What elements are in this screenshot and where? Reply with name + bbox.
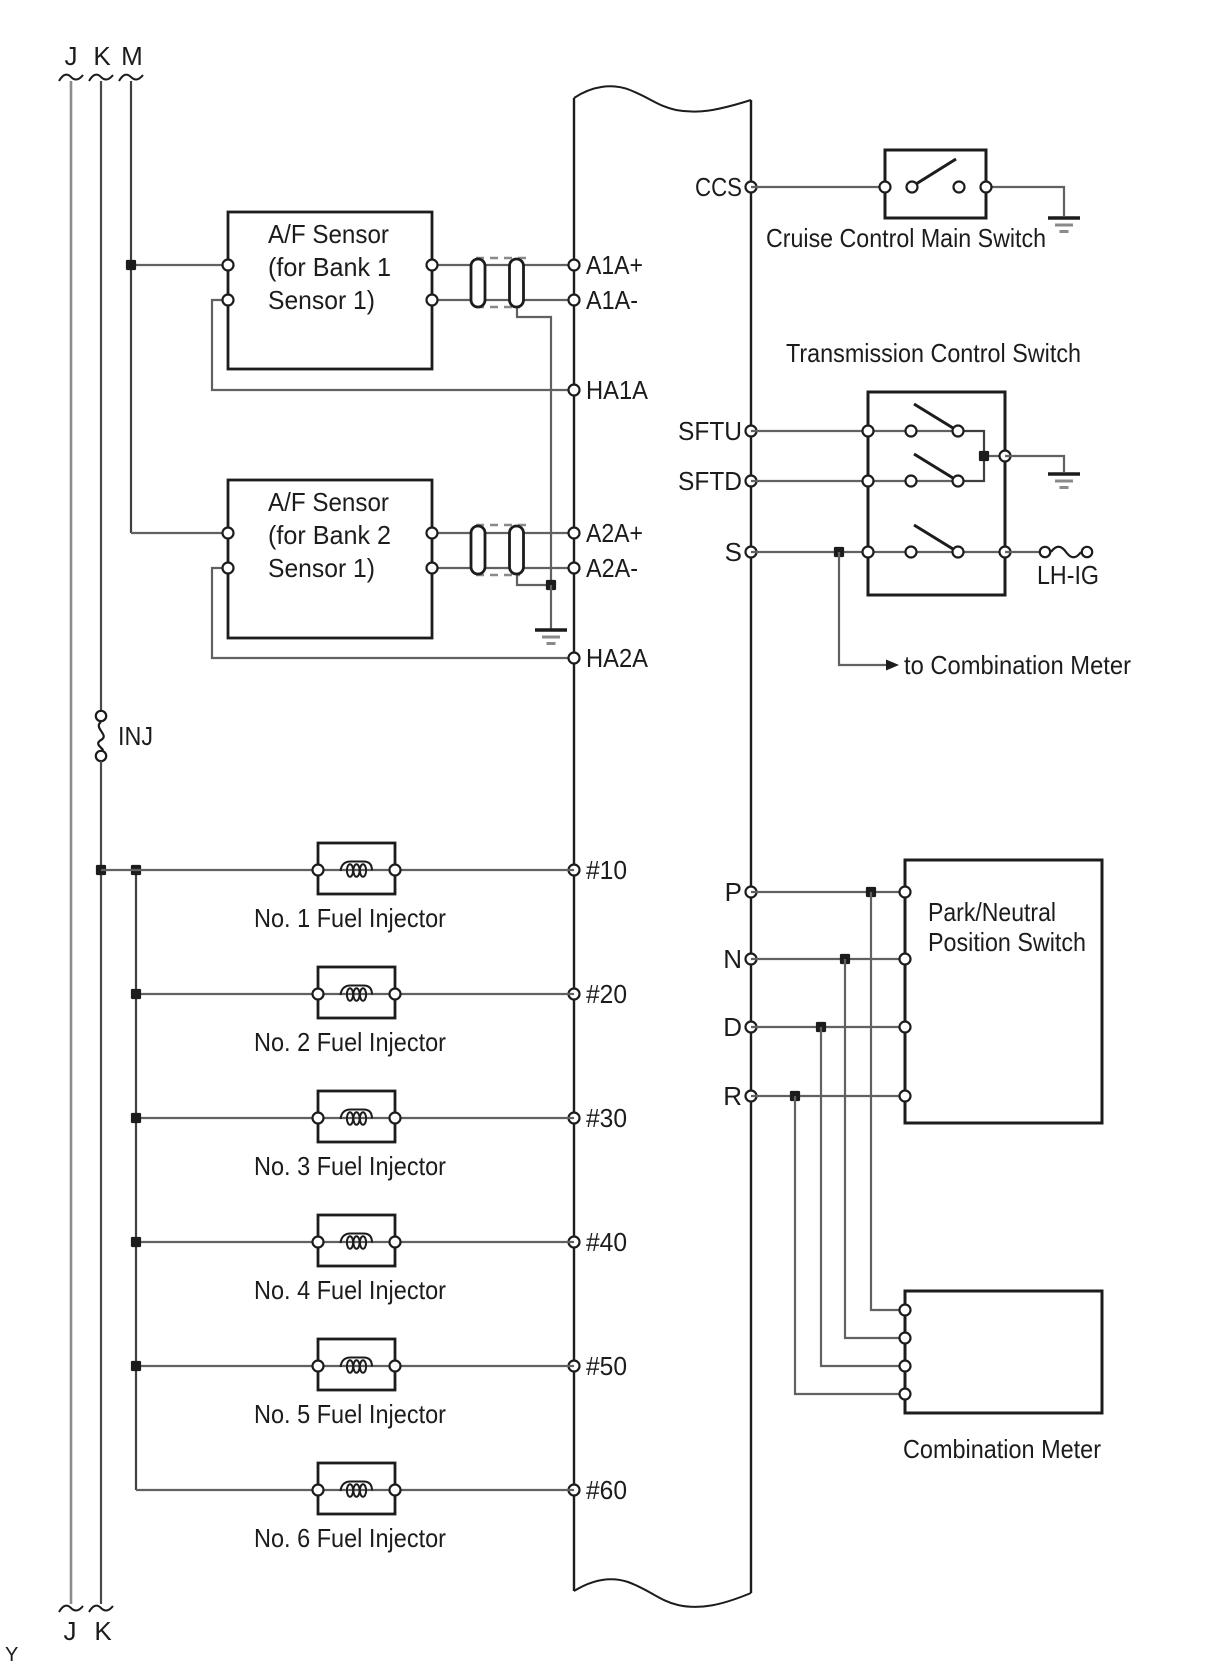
ECM pin #60 [569, 1485, 580, 1496]
ECM pin HA1A [569, 385, 580, 396]
cruise switch blade [916, 159, 956, 184]
svg-text:No. 5 Fuel Injector: No. 5 Fuel Injector [254, 1399, 446, 1429]
injector 5 pins [313, 1361, 324, 1372]
combination meter box [905, 1291, 1102, 1413]
svg-text:Park/Neutral: Park/Neutral [928, 897, 1056, 927]
svg-text:SFTD: SFTD [678, 466, 742, 496]
shielded cable symbol sensor 1 [476, 257, 528, 260]
svg-text:J: J [65, 41, 78, 71]
S switch internals [868, 551, 1005, 553]
ECM block torn top edge [574, 86, 751, 111]
sensor1 terminal pins [223, 260, 234, 271]
transmission control switch box [868, 392, 1005, 595]
junction shield drains [546, 580, 556, 590]
svg-text:No. 2 Fuel Injector: No. 2 Fuel Injector [254, 1027, 446, 1057]
svg-text:#10: #10 [586, 855, 627, 885]
svg-text:A2A+: A2A+ [586, 518, 643, 548]
svg-text:S: S [725, 537, 742, 567]
junction D branch [816, 1022, 826, 1032]
No. 5 fuel injector box [318, 1339, 395, 1390]
ECM block right edge [750, 100, 752, 1593]
junction common [979, 451, 989, 461]
svg-text:A1A-: A1A- [586, 285, 638, 315]
wire P to PNP switch [751, 891, 905, 893]
svg-text:No. 4 Fuel Injector: No. 4 Fuel Injector [254, 1275, 446, 1305]
junction feed row 3 [131, 1113, 141, 1123]
ground (cruise switch) [1048, 218, 1080, 232]
cruise switch contacts [880, 182, 891, 193]
injector 6 coil [341, 1482, 373, 1492]
junction feed row 4 [131, 1237, 141, 1247]
ECM pin #10 [569, 865, 580, 876]
wire SFTU [751, 430, 868, 432]
junction feed row 5 [131, 1361, 141, 1371]
wire sensor1 heater return to HA1A [212, 300, 574, 390]
svg-text:A2A-: A2A- [586, 553, 638, 583]
svg-text:#60: #60 [586, 1475, 627, 1505]
wire A2A+ [432, 532, 574, 534]
PNP switch pins [900, 887, 911, 898]
svg-text:Position Switch: Position Switch [928, 927, 1086, 957]
ECM block torn bottom edge [574, 1579, 751, 1607]
svg-text:N: N [723, 944, 742, 974]
shielded cable symbol sensor 2 [476, 524, 528, 527]
ground (transmission switch) [1048, 474, 1080, 488]
cruise control main switch box [885, 150, 986, 218]
wire S to LH-IG [1005, 551, 1040, 553]
wire D to PNP switch [751, 1026, 905, 1028]
shield ground [550, 585, 552, 629]
svg-text:A/F Sensor: A/F Sensor [268, 487, 389, 517]
wire M break symbol (top) [119, 75, 143, 81]
wire J break symbol (bottom) [59, 1606, 83, 1612]
LH-IG break symbol [1040, 547, 1050, 557]
svg-text:No. 3 Fuel Injector: No. 3 Fuel Injector [254, 1151, 446, 1181]
wire A1A- [432, 299, 574, 301]
svg-text:A/F Sensor: A/F Sensor [268, 219, 389, 249]
injector 6 pins [313, 1485, 324, 1496]
svg-text:Transmission Control Switch: Transmission Control Switch [786, 338, 1081, 368]
wire injector row 6 [136, 1489, 574, 1491]
wire K vertical lower [100, 761, 102, 1604]
No. 1 fuel injector box [318, 843, 395, 894]
injector 5 coil [341, 1358, 373, 1368]
injector 3 pins [313, 1113, 324, 1124]
svg-text:CCS: CCS [695, 172, 742, 202]
svg-text:(for Bank 2: (for Bank 2 [268, 520, 391, 550]
junction on wire M at sensor 1 feed [126, 260, 136, 270]
wire S [751, 551, 868, 553]
injector 3 coil [341, 1110, 373, 1120]
junction S to combination meter [834, 547, 844, 557]
wire J vertical [70, 81, 73, 1604]
svg-text:#20: #20 [586, 979, 627, 1009]
ECM pin #40 [569, 1237, 580, 1248]
svg-text:R: R [723, 1081, 742, 1111]
PNP branch verticals to combination meter [871, 892, 905, 1310]
svg-text:HA1A: HA1A [586, 375, 649, 405]
svg-text:D: D [723, 1012, 742, 1042]
A/F sensor 2 box [228, 480, 432, 638]
wire K break symbol (bottom) [89, 1606, 113, 1612]
ECM block left edge [573, 98, 575, 1591]
SFTU switch internals [868, 430, 958, 432]
A/F sensor 1 box [228, 212, 432, 369]
wire injector row 2 [136, 993, 574, 995]
ECM pin A1A+ [569, 260, 580, 271]
svg-text:K: K [93, 41, 111, 71]
svg-text:(for Bank 1: (for Bank 1 [268, 252, 391, 282]
wire SFTD [751, 480, 868, 482]
transmission switch ground wire [1005, 456, 1064, 472]
wire injector row 3 [136, 1117, 574, 1119]
arrow to combination meter [886, 660, 899, 671]
wire A1A+ [432, 264, 574, 266]
wire N to PNP switch [751, 958, 905, 960]
combination meter pins [900, 1305, 911, 1316]
ECM pin A2A- [569, 563, 580, 574]
svg-text:#30: #30 [586, 1103, 627, 1133]
fuse INJ [98, 722, 104, 751]
shield drain wire sensor 1 [517, 305, 551, 585]
svg-text:Cruise Control Main Switch: Cruise Control Main Switch [766, 223, 1046, 253]
shield drain wire sensor 2 [517, 573, 551, 585]
junction N branch [840, 954, 850, 964]
svg-text:Combination Meter: Combination Meter [903, 1434, 1101, 1464]
svg-text:INJ: INJ [118, 721, 153, 751]
link SFTU/SFTD to common terminal [958, 431, 984, 481]
junction P branch [866, 887, 876, 897]
ECM pin #20 [569, 989, 580, 1000]
svg-text:#40: #40 [586, 1227, 627, 1257]
wire K vertical upper [100, 81, 102, 711]
park/neutral position switch box [905, 860, 1102, 1123]
SFTD switch internals [868, 480, 958, 482]
wire M to A/F sensor 1 [131, 264, 228, 266]
wire injector row 4 [136, 1241, 574, 1243]
injector 4 coil [341, 1234, 373, 1244]
svg-text:Sensor 1): Sensor 1) [268, 285, 375, 315]
No. 6 fuel injector box [318, 1463, 395, 1514]
No. 4 fuel injector box [318, 1215, 395, 1266]
wire injector row 5 [136, 1365, 574, 1367]
svg-text:#50: #50 [586, 1351, 627, 1381]
junction feed row 2 [131, 989, 141, 999]
injector 2 coil [341, 986, 373, 996]
injector 4 pins [313, 1237, 324, 1248]
injector 1 coil [341, 862, 373, 872]
svg-text:P: P [725, 877, 742, 907]
ECM pin A2A+ [569, 528, 580, 539]
svg-text:SFTU: SFTU [678, 416, 742, 446]
svg-text:to Combination Meter: to Combination Meter [904, 650, 1131, 680]
injector 1 pins [313, 865, 324, 876]
junction R branch [790, 1091, 800, 1101]
svg-text:LH-IG: LH-IG [1037, 560, 1099, 590]
wire A2A- [432, 567, 574, 569]
wire J break symbol (top) [59, 75, 83, 81]
transmission switch contacts [863, 426, 874, 437]
svg-text:No. 1 Fuel Injector: No. 1 Fuel Injector [254, 903, 446, 933]
wire sensor2 heater return to HA2A [212, 568, 574, 658]
wire M vertical [130, 81, 132, 533]
No. 3 fuel injector box [318, 1091, 395, 1142]
wire R to PNP switch [751, 1095, 905, 1097]
No. 2 fuel injector box [318, 967, 395, 1018]
ECM pin #30 [569, 1113, 580, 1124]
ECM pin HA2A [569, 653, 580, 664]
injector feed bus vertical [135, 870, 137, 1490]
ECM pin A1A- [569, 295, 580, 306]
injector 2 pins [313, 989, 324, 1000]
wire S branch down [839, 552, 886, 665]
svg-text:Y: Y [5, 1644, 18, 1666]
wire M to A/F sensor 2 [131, 532, 228, 534]
svg-text:A1A+: A1A+ [586, 250, 643, 280]
svg-text:No. 6 Fuel Injector: No. 6 Fuel Injector [254, 1523, 446, 1553]
svg-text:HA2A: HA2A [586, 643, 649, 673]
wire CCS to cruise switch [751, 186, 885, 188]
wire injector row 1 [101, 869, 574, 871]
junction K to injector row 1 [96, 865, 106, 875]
ECM pin #50 [569, 1361, 580, 1372]
sensor2 terminal pins [223, 528, 234, 539]
wire K break symbol (top) [89, 75, 113, 81]
svg-text:M: M [121, 41, 143, 71]
svg-text:K: K [94, 1616, 112, 1646]
svg-text:Sensor 1): Sensor 1) [268, 553, 375, 583]
cruise switch ground wire [986, 187, 1064, 216]
svg-text:J: J [64, 1616, 77, 1646]
